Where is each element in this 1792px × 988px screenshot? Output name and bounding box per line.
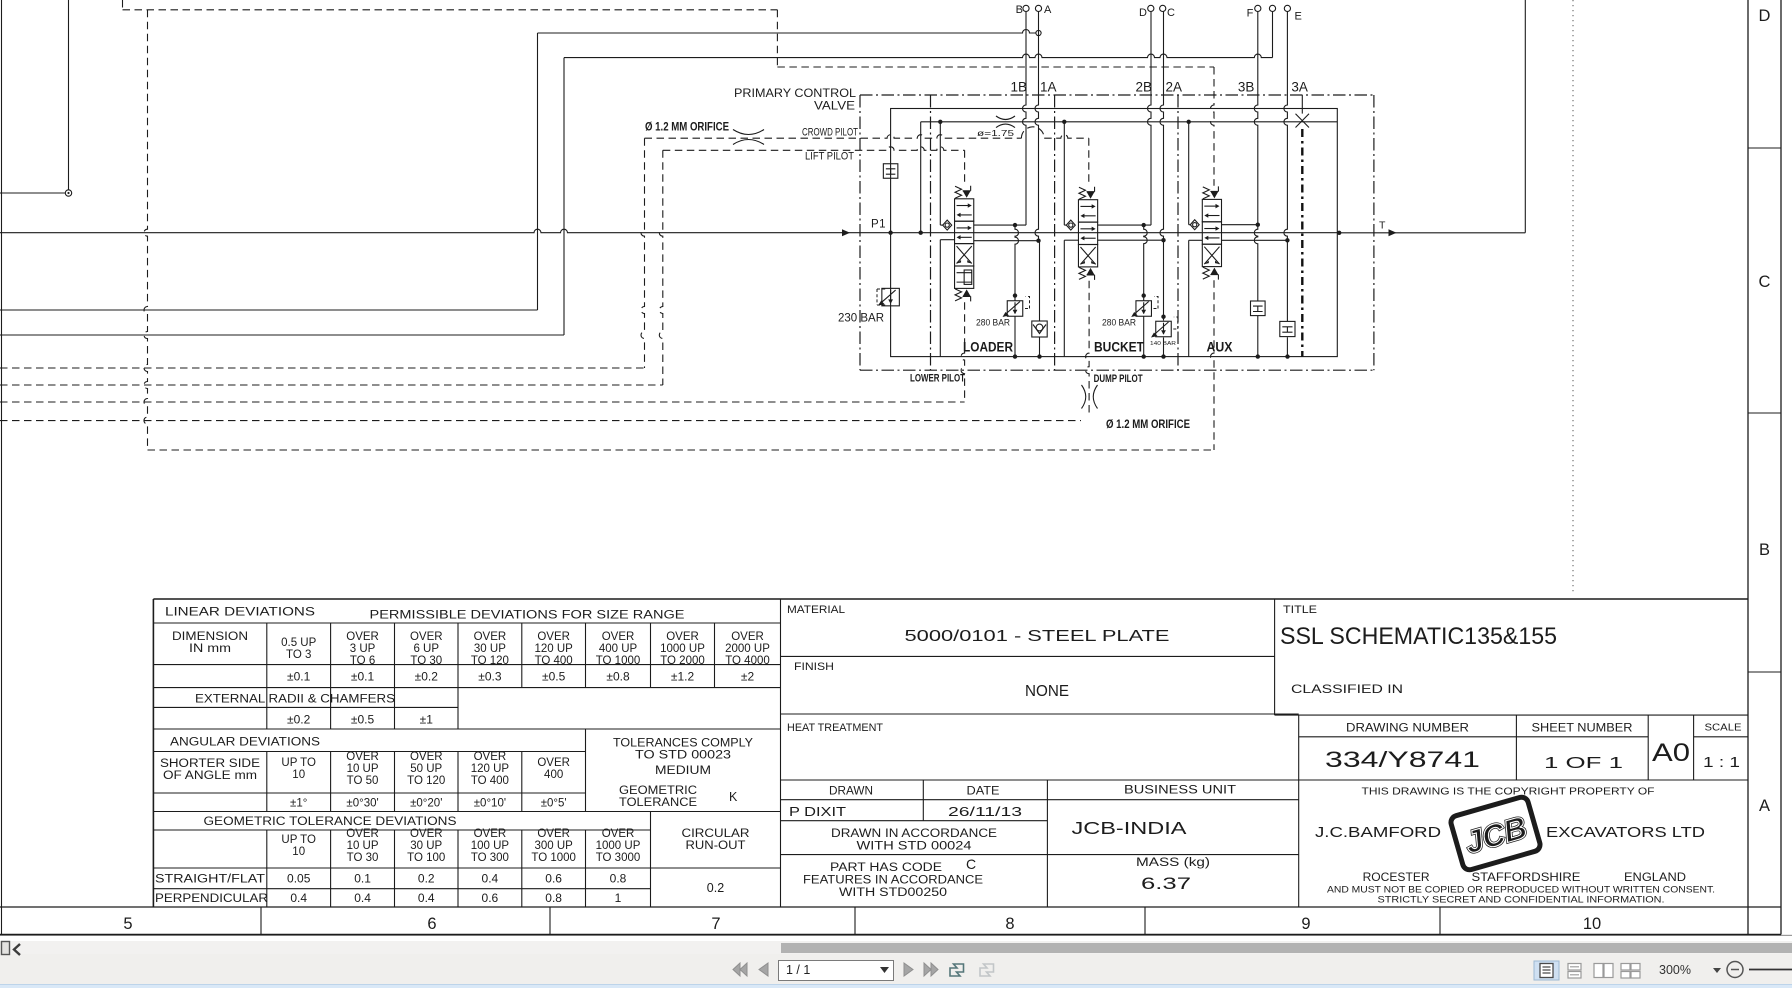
label DUMP PILOT [1094,373,1143,385]
svg-text:SCALE: SCALE [1705,723,1742,734]
svg-text:K: K [729,790,738,804]
sidebar toggle icon [0,940,26,957]
svg-text:TO STD 00023: TO STD 00023 [635,750,731,762]
svg-text:EXTERNAL RADII & CHAMFERS: EXTERNAL RADII & CHAMFERS [195,694,395,706]
svg-text:EXCAVATORS LTD: EXCAVATORS LTD [1546,825,1705,841]
wire: riser 1B [1023,12,1026,226]
primary control valve chain-line boundary [860,95,1374,370]
svg-text:10: 10 [292,846,305,858]
svg-text:A: A [1044,4,1052,16]
directional valve V2 BUCKET (3-position spool) [1078,187,1097,280]
svg-text:±2: ±2 [741,670,755,684]
wire: AUX upper-left feed [1189,122,1192,225]
plugged port X mark on 3A passage [1296,95,1310,128]
svg-text:±0°10': ±0°10' [474,798,506,810]
svg-text:GEOMETRIC: GEOMETRIC [619,785,697,797]
svg-text:B: B [1759,541,1770,559]
title / drawing number block text [1280,604,1742,906]
svg-text:LIFT PILOT: LIFT PILOT [805,151,854,163]
svg-text:CLASSIFIED IN: CLASSIFIED IN [1291,682,1403,696]
orifice symbol (crowd pilot) [733,130,764,145]
svg-text:TO 120: TO 120 [471,655,509,667]
svg-text:±1: ±1 [420,713,434,727]
svg-text:0.8: 0.8 [610,872,627,886]
svg-text:PRIMARY CONTROL: PRIMARY CONTROL [734,88,857,100]
svg-text:TO 3000: TO 3000 [596,852,641,864]
svg-text:3A: 3A [1291,80,1308,95]
svg-text:OVER: OVER [666,631,699,643]
svg-text:0.5 UP: 0.5 UP [281,637,316,649]
svg-text:280 BAR: 280 BAR [976,318,1010,329]
svg-text:±1.2: ±1.2 [671,670,695,684]
svg-text:A: A [1759,797,1770,815]
svg-text:SSL SCHEMATIC135&155: SSL SCHEMATIC135&155 [1280,623,1557,650]
svg-text:TO 3: TO 3 [286,649,311,661]
svg-text:DRAWN IN ACCORDANCE: DRAWN IN ACCORDANCE [831,828,997,840]
port circle C [1160,5,1175,19]
svg-text:6: 6 [427,915,436,933]
label LIFT PILOT [805,151,854,163]
svg-text:TO 400: TO 400 [471,775,509,787]
svg-text:SHORTER SIDE: SHORTER SIDE [160,758,260,770]
tolerance table text [155,607,770,906]
horizontal scrollbar [0,941,1792,954]
svg-text:30 UP: 30 UP [410,840,442,852]
svg-text:±0.2: ±0.2 [287,713,311,727]
svg-text:DRAWING NUMBER: DRAWING NUMBER [1346,723,1469,735]
port circle B [1016,4,1029,16]
svg-text:1 : 1: 1 : 1 [1703,755,1740,771]
orifice symbol (dump pilot) [1082,385,1098,409]
port circle mid [1269,5,1275,11]
wire: riser 2A with relief branch [1160,12,1166,357]
port circle E [1284,5,1302,22]
anti-cavitation valve 3A [1280,321,1295,336]
svg-text:230 BAR: 230 BAR [838,313,884,325]
svg-text:OVER: OVER [602,631,635,643]
svg-text:TO 6: TO 6 [350,655,375,667]
svg-text:Ø 1.2 MM ORIFICE: Ø 1.2 MM ORIFICE [645,122,729,134]
svg-text:OVER: OVER [410,828,443,840]
svg-text:50 UP: 50 UP [410,763,442,775]
svg-text:BUSINESS UNIT: BUSINESS UNIT [1124,785,1236,797]
label 1.2 MM ORIFICE (upper) [645,122,729,134]
svg-text:±0.1: ±0.1 [351,670,375,684]
svg-text:PART HAS CODE: PART HAS CODE [830,862,942,874]
svg-text:TITLE: TITLE [1283,604,1317,616]
svg-text:P1: P1 [871,219,886,231]
svg-text:100 UP: 100 UP [471,840,510,852]
wire: BUCKET lower-left return [1064,240,1078,356]
svg-text:WITH STD 00024: WITH STD 00024 [857,841,973,853]
svg-text:±0.2: ±0.2 [415,670,439,684]
svg-text:OVER: OVER [731,631,764,643]
valve body outline (primary control valve block) [888,109,1337,359]
svg-text:26/11/13: 26/11/13 [948,805,1022,819]
svg-text:OVER: OVER [537,757,570,769]
svg-text:VALVE: VALVE [814,101,855,113]
svg-text:0.4: 0.4 [290,891,307,905]
wire: AUX right work lines [1222,225,1288,241]
svg-text:DIMENSION: DIMENSION [172,631,248,643]
svg-text:TO 120: TO 120 [407,775,445,787]
svg-text:TO 1000: TO 1000 [596,655,641,667]
svg-text:JCB-INDIA: JCB-INDIA [1072,818,1187,838]
label LOWER PILOT [910,373,965,385]
section labels LOADER BUCKET AUX [963,340,1233,355]
svg-text:ROCESTER: ROCESTER [1363,870,1430,884]
svg-text:LOWER PILOT: LOWER PILOT [910,373,965,385]
svg-text:FINISH: FINISH [794,661,834,673]
dashed pilot: crowd pilot line [0,127,1089,368]
svg-text:A0: A0 [1652,739,1690,767]
svg-text:TOLERANCE: TOLERANCE [619,797,697,809]
svg-text:MEDIUM: MEDIUM [655,763,711,777]
svg-text:AUX: AUX [1207,340,1233,355]
svg-text:280 BAR: 280 BAR [1102,318,1136,329]
wire: BUCKET right work lines [1098,223,1164,240]
dashed pilot: lower pilot line [0,302,965,402]
svg-text:HEAT TREATMENT: HEAT TREATMENT [787,722,883,734]
svg-text:DUMP PILOT: DUMP PILOT [1094,373,1143,385]
svg-text:9: 9 [1301,915,1310,933]
svg-text:OVER: OVER [410,751,443,763]
svg-text:J.C.BAMFORD: J.C.BAMFORD [1315,825,1441,841]
nav buttons [728,960,998,980]
wire: service line A loop (y33) [0,30,1041,311]
svg-text:1 OF 1: 1 OF 1 [1544,755,1623,772]
svg-text:STRAIGHT/FLAT: STRAIGHT/FLAT [155,874,265,886]
svg-text:D: D [1139,7,1147,19]
svg-text:±0.5: ±0.5 [351,713,375,727]
svg-text:C: C [1167,7,1175,19]
wire: LOADER right work lines [974,223,1039,241]
dashed pilot: lift pilot line [0,147,965,385]
directional valve V1 LOADER (4-position spool) [955,186,974,302]
wire: AUX lower-left return [1189,240,1203,356]
svg-text:OVER: OVER [537,631,570,643]
svg-text:C: C [1759,273,1771,291]
node T label [1379,220,1386,232]
svg-text:TO 300: TO 300 [471,852,509,864]
label CROWD PILOT [802,127,858,139]
svg-text:OVER: OVER [410,631,443,643]
svg-text:DATE: DATE [967,786,1000,798]
capped passage heavy centreline [1301,129,1303,357]
label 1.2 MM ORIFICE (lower) [1106,419,1190,431]
wire: main pressure line P to valve inlet [0,229,1337,236]
svg-text:0.4: 0.4 [482,872,499,886]
svg-text:STRICTLY SECRET AND CONFIDENTI: STRICTLY SECRET AND CONFIDENTIAL INFORMA… [1378,895,1665,906]
wire: LOADER relief drop leg [1013,225,1019,357]
svg-text:TO 50: TO 50 [347,775,379,787]
secondary relief valve (BUCKET 2A) [1150,317,1178,347]
svg-text:0.6: 0.6 [482,891,499,905]
svg-text:LINEAR DEVIATIONS: LINEAR DEVIATIONS [165,607,315,619]
svg-text:±0°20': ±0°20' [410,798,442,810]
wire: LOADER section P-stub [919,122,923,235]
svg-text:T: T [1379,220,1386,232]
svg-text:5: 5 [123,915,132,933]
svg-text:F: F [1247,8,1254,20]
wire: BUCKET relief drop leg [1142,225,1148,357]
svg-text:1B: 1B [1010,80,1027,95]
pilot cap symbol (lift pilot feed) [883,164,898,179]
wire: service line B loop (y57.6) [0,12,1273,335]
svg-text:IN mm: IN mm [189,643,231,655]
check valve (LOADER service) [1032,321,1047,337]
svg-text:0.05: 0.05 [287,872,311,886]
svg-text:OVER: OVER [346,751,379,763]
wire: tank line T with arrow, to top edge [1337,0,1525,236]
svg-text:8: 8 [1005,915,1014,933]
svg-text:±0.5: ±0.5 [542,670,566,684]
section divider chain-lines [931,95,1179,370]
pdf viewer bottom toolbar [0,936,1792,987]
svg-text:334/Y8741: 334/Y8741 [1325,747,1480,772]
svg-text:300 UP: 300 UP [534,840,573,852]
svg-text:STAFFORDSHIRE: STAFFORDSHIRE [1472,870,1581,884]
svg-text:OVER: OVER [537,828,570,840]
svg-text:±0°30': ±0°30' [346,798,378,810]
port relief valve 280 BAR (BUCKET) [1102,297,1158,329]
wire: riser 3B [1254,12,1260,357]
node P1 label [871,219,886,231]
svg-text:0.2: 0.2 [707,881,724,895]
svg-text:1000 UP: 1000 UP [660,643,705,655]
view mode icons [1533,960,1643,981]
svg-text:2A: 2A [1166,80,1183,95]
svg-text:1000 UP: 1000 UP [596,840,641,852]
svg-text:0.2: 0.2 [418,872,435,886]
svg-text:ø=1.75: ø=1.75 [977,128,1014,138]
svg-text:0.6: 0.6 [545,872,562,886]
svg-text:LOADER: LOADER [963,340,1013,355]
svg-text:400: 400 [544,769,563,781]
svg-text:0.4: 0.4 [418,891,435,905]
svg-text:NONE: NONE [1025,683,1069,700]
svg-text:6 UP: 6 UP [413,643,439,655]
svg-text:OVER: OVER [474,751,507,763]
svg-text:3B: 3B [1238,80,1255,95]
svg-text:±0.1: ±0.1 [287,670,311,684]
svg-text:3 UP: 3 UP [350,643,376,655]
svg-text:ANGULAR DEVIATIONS: ANGULAR DEVIATIONS [170,737,320,749]
svg-text:P DIXIT: P DIXIT [789,805,846,819]
svg-text:WITH STD00250: WITH STD00250 [839,887,947,899]
svg-text:SHEET NUMBER: SHEET NUMBER [1532,723,1633,735]
svg-text:10: 10 [292,769,305,781]
svg-text:CROWD PILOT: CROWD PILOT [802,127,858,139]
label PRIMARY CONTROL VALVE [734,88,857,113]
dashed pilot: dump pilot line with orifice [0,281,1089,421]
port circle F [1247,5,1261,19]
wire: LOADER lower-left return [940,240,954,357]
svg-text:ENGLAND: ENGLAND [1624,870,1686,884]
svg-text:5000/0101 - STEEL PLATE: 5000/0101 - STEEL PLATE [905,628,1170,645]
svg-text:OVER: OVER [346,631,379,643]
port relief valve 280 BAR (LOADER) [976,297,1030,329]
port circle D [1139,5,1154,19]
svg-text:BUCKET: BUCKET [1094,340,1145,355]
svg-text:TOLERANCES COMPLY: TOLERANCES COMPLY [613,738,753,750]
svg-text:TO 400: TO 400 [535,655,573,667]
svg-text:0.1: 0.1 [354,872,371,886]
svg-text:B: B [1016,4,1023,16]
anti-cavitation valve 3B [1251,301,1266,316]
svg-text:10 UP: 10 UP [347,840,379,852]
svg-text:MATERIAL: MATERIAL [787,604,845,616]
dashed pilot loop: dump pilot outer boundary [123,0,1215,450]
svg-text:E: E [1295,11,1302,23]
svg-text:PERPENDICULAR: PERPENDICULAR [155,893,268,905]
svg-text:0.8: 0.8 [545,891,562,905]
svg-text:10 UP: 10 UP [347,763,379,775]
svg-text:±0.8: ±0.8 [606,670,630,684]
port labels 1B 1A 2B 2A 3B 3A [1010,80,1307,95]
svg-text:D: D [1759,7,1771,25]
svg-text:120 UP: 120 UP [471,763,510,775]
directional valve V3 AUX (3-position spool) [1202,186,1221,279]
wire: LOADER upper-left feed [940,122,943,225]
svg-text:UP TO: UP TO [281,834,316,846]
svg-text:400 UP: 400 UP [599,643,638,655]
svg-text:±0.3: ±0.3 [478,670,502,684]
svg-text:10: 10 [1583,915,1601,933]
svg-text:1A: 1A [1040,80,1057,95]
load-check pilot symbol, LOADER [943,220,952,230]
svg-text:TO 2000: TO 2000 [660,655,705,667]
wire: top-left return line with node [0,0,72,196]
svg-text:PERMISSIBLE DEVIATIONS FOR SIZ: PERMISSIBLE DEVIATIONS FOR SIZE RANGE [370,610,685,622]
svg-text:30 UP: 30 UP [474,643,506,655]
wire: internal gallery y=121.8 [921,120,1338,124]
svg-text:OF ANGLE mm: OF ANGLE mm [163,770,257,782]
svg-text:140 BAR: 140 BAR [1150,341,1176,347]
svg-text:0.4: 0.4 [354,891,371,905]
dotted fold line [1572,0,1574,593]
svg-text:±0°5': ±0°5' [541,798,567,810]
main relief valve 230 BAR [838,288,899,324]
wire: left sheet edge line [1,0,3,935]
svg-text:1: 1 [615,891,622,905]
svg-text:THIS DRAWING IS THE COPYRIGHT: THIS DRAWING IS THE COPYRIGHT PROPERTY O… [1362,786,1655,798]
svg-text:6.37: 6.37 [1141,874,1191,893]
svg-text:OVER: OVER [474,631,507,643]
svg-text:DRAWN: DRAWN [829,786,873,798]
svg-text:2B: 2B [1135,80,1152,95]
svg-text:OVER: OVER [602,828,635,840]
svg-text:TO 4000: TO 4000 [725,655,770,667]
svg-text:Ø 1.2 MM ORIFICE: Ø 1.2 MM ORIFICE [1106,419,1190,431]
JCB logo [1449,796,1541,872]
svg-text:FEATURES IN ACCORDANCE: FEATURES IN ACCORDANCE [803,875,983,887]
wire: riser 1A with check-valve branch [1035,12,1041,357]
svg-text:±1°: ±1° [290,798,307,810]
svg-text:OVER: OVER [346,828,379,840]
svg-text:7: 7 [711,915,720,933]
svg-text:TO 30: TO 30 [347,852,379,864]
svg-text:C: C [966,856,976,872]
material / finish / drawn block text [787,604,1236,899]
orifice 1.75 symbol and label [977,116,1015,138]
svg-text:120 UP: 120 UP [534,643,573,655]
svg-text:TO 30: TO 30 [410,655,442,667]
svg-text:TO 1000: TO 1000 [531,852,576,864]
port circle A [1035,4,1052,16]
page bottom edge shading [0,935,1792,936]
svg-text:MASS (kg): MASS (kg) [1136,857,1210,869]
load-check pilot symbol, BUCKET [1066,220,1075,230]
load-check pilot symbol, AUX [1190,220,1199,230]
svg-text:RUN-OUT: RUN-OUT [686,840,746,852]
wire: riser 2B [1148,12,1152,226]
wire: riser 3A (port E) [1284,12,1290,357]
svg-text:CIRCULAR: CIRCULAR [682,828,750,840]
wire: BUCKET upper-left feed [1064,122,1067,225]
svg-text:OVER: OVER [474,828,507,840]
svg-text:2000 UP: 2000 UP [725,643,770,655]
svg-text:UP TO: UP TO [281,757,316,769]
svg-text:GEOMETRIC TOLERANCE DEVIATIONS: GEOMETRIC TOLERANCE DEVIATIONS [204,816,457,828]
svg-text:TO 100: TO 100 [407,852,445,864]
